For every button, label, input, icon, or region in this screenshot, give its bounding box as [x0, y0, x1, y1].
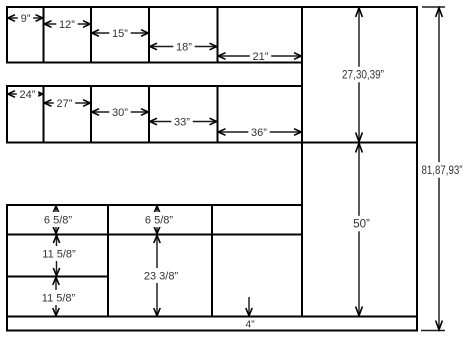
tall cabinet left edge	[301, 6, 303, 318]
top edge of upper door row	[6, 6, 418, 8]
left edge second row	[6, 85, 8, 144]
bottom outer edge	[6, 330, 418, 332]
divider 9|12	[43, 7, 45, 63]
svg-text:9”: 9”	[21, 13, 31, 25]
extension tick bottom	[421, 330, 445, 332]
dimension 50in tall cabinet bottom	[351, 143, 372, 315]
svg-text:12”: 12”	[59, 19, 75, 31]
svg-text:4”: 4”	[245, 319, 255, 331]
dimension 36in	[218, 127, 301, 140]
svg-text:18”: 18”	[176, 42, 192, 54]
divider 12|15	[90, 7, 92, 63]
bottom edge of upper door row	[6, 62, 302, 64]
svg-text:6 5/8”: 6 5/8”	[44, 215, 72, 227]
svg-text:33”: 33”	[174, 117, 190, 129]
bottom edge of second row / tall-cabinet divider	[6, 142, 418, 144]
dimension 81,87,93in overall height	[420, 8, 465, 330]
dimension 24in	[8, 89, 43, 102]
dimension 27,30,39in tall cabinet top	[340, 8, 386, 142]
left edge lower section	[6, 204, 8, 332]
extension tick top	[422, 6, 445, 8]
dimension 12in	[44, 19, 90, 32]
dimension 6 5/8in column1	[42, 206, 75, 234]
dimension 33in	[150, 116, 217, 129]
top edge of second door row	[6, 85, 302, 87]
dimension 18in	[150, 41, 217, 54]
divider 15|18	[148, 7, 150, 63]
svg-text:36”: 36”	[251, 127, 267, 139]
top edge of bottom rail	[6, 316, 418, 318]
svg-text:21”: 21”	[253, 51, 269, 63]
drawer column divider 2	[211, 205, 213, 317]
dimension 30in	[92, 107, 148, 120]
svg-text:50”: 50”	[353, 219, 370, 231]
svg-text:23 3/8”: 23 3/8”	[144, 271, 179, 283]
dimension 11 5/8in row3	[39, 277, 78, 315]
divider 24|27	[43, 86, 45, 143]
drawer row divider at 275 (left column only)	[6, 276, 109, 278]
dimension 11 5/8in row2	[40, 235, 79, 275]
svg-text:11 5/8”: 11 5/8”	[42, 249, 76, 261]
svg-text:30”: 30”	[112, 107, 128, 119]
divider 18|21	[217, 7, 219, 63]
svg-text:11 5/8”: 11 5/8”	[42, 293, 76, 305]
top edge of drawer bank	[6, 204, 302, 206]
drawer row divider at 234	[6, 234, 302, 236]
dimension 27in	[44, 98, 90, 111]
dimension 21in	[218, 51, 301, 64]
svg-text:24”: 24”	[20, 89, 36, 101]
svg-text:27”: 27”	[57, 98, 73, 110]
divider 33|36	[217, 86, 219, 143]
drawer column divider 1	[107, 205, 109, 317]
dimension 9in	[8, 13, 43, 26]
dimension 23 3/8in	[142, 235, 181, 315]
left edge upper row	[6, 6, 8, 64]
dimension 15in	[92, 28, 148, 41]
svg-text:81,87,93”: 81,87,93”	[422, 165, 463, 177]
svg-text:15”: 15”	[112, 28, 128, 40]
divider 27|30	[90, 86, 92, 143]
divider 30|33	[148, 86, 150, 143]
dimension 6 5/8in column2	[143, 206, 176, 234]
svg-text:6 5/8”: 6 5/8”	[145, 215, 173, 227]
svg-text:27,30,39”: 27,30,39”	[342, 70, 384, 82]
right outer edge	[416, 6, 418, 332]
dimension 4in bottom rail leader	[246, 297, 252, 316]
